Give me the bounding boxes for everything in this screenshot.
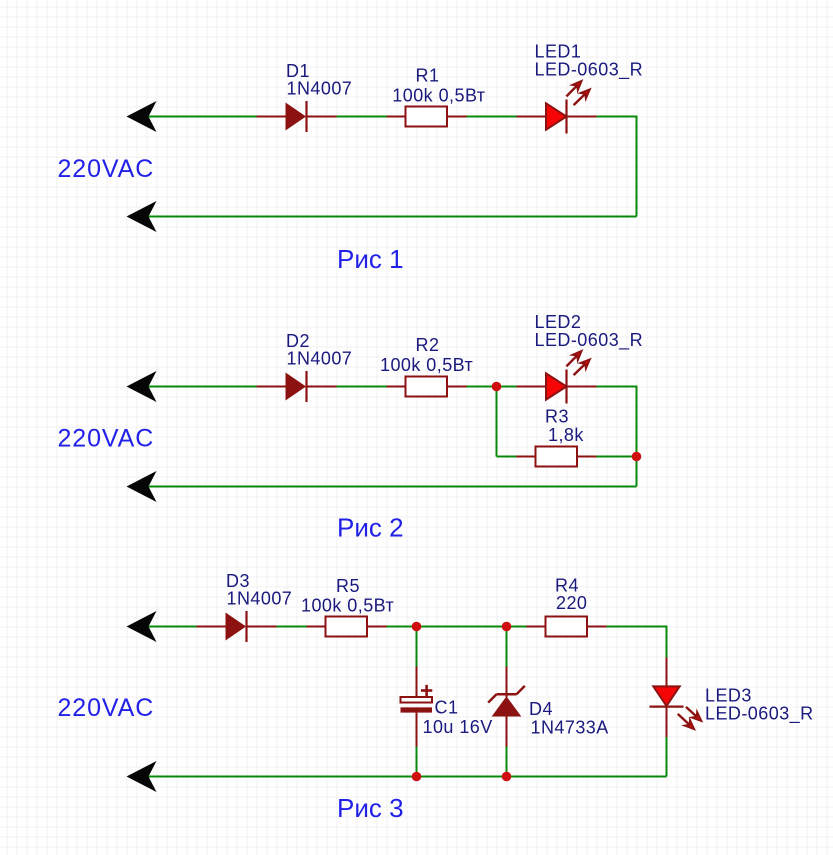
label R4 value 220: [556, 593, 587, 613]
label caption Рис 1: [337, 244, 404, 274]
wire segment branch to R3 (496.5,456.5)-(516.5,456.5): [497, 456, 517, 458]
wire segment arrow to D3 (128.5,626.5)-(196.5,626.5): [129, 626, 197, 628]
net 220VAC terminal arrow, circuit2 neutral: [127, 471, 157, 502]
wire segment R5 to R4 via junctions (386.5,626.5)-(526.5,626.5): [387, 626, 527, 628]
label LED2 designator: [535, 312, 582, 332]
svg-text:220: 220: [556, 593, 587, 613]
label D3 value 1N4007: [227, 589, 293, 609]
svg-text:220VAC: 220VAC: [58, 694, 155, 722]
label net 220VAC circuit3: [58, 694, 155, 722]
label R1 designator: [416, 66, 440, 86]
label D4 designator: [529, 699, 553, 719]
junction node at R2-LED2-R3 (496.5,386.5): [492, 382, 502, 392]
diode D1: [257, 101, 337, 132]
label R2 designator: [416, 335, 440, 355]
wire segment arrow to D2 (128.5,386.5)-(256.5,386.5): [129, 386, 257, 388]
svg-text:R5: R5: [336, 576, 360, 596]
label LED1 designator: [535, 42, 582, 62]
svg-text:LED1: LED1: [535, 42, 582, 62]
svg-text:R3: R3: [545, 407, 569, 427]
svg-text:100k 0,5Вт: 100k 0,5Вт: [380, 355, 473, 375]
label D1 designator: [286, 61, 310, 81]
wire segment D3 to R5 (276.5,626.5)-(306.5,626.5): [277, 626, 307, 628]
capacitor C1 polarized: [401, 667, 433, 747]
label R4 designator: [555, 576, 579, 596]
junction node bottom at C1 (416.5,776.5): [412, 772, 422, 782]
wire circuit1 right vertical (636.5,116.5)-(636.5,216.5): [636, 116, 638, 217]
svg-text:Рис 2: Рис 2: [337, 512, 404, 542]
label R3 value 1,8k: [548, 425, 584, 445]
label LED3 designator: [705, 686, 752, 706]
label R2 value 100k 0,5Вт: [380, 355, 473, 375]
label net 220VAC circuit2: [58, 424, 155, 452]
wire circuit2 bottom return (636.5,486.5)-(128.5,486.5): [129, 486, 637, 488]
svg-text:D4: D4: [529, 699, 553, 719]
label C1 designator: [435, 698, 459, 718]
wire segment corner to LED3 (666.5,626.5)-(666.5,657.5): [666, 626, 668, 658]
svg-text:220VAC: 220VAC: [58, 424, 155, 452]
label net 220VAC circuit1: [58, 155, 155, 183]
svg-text:C1: C1: [435, 698, 459, 718]
label D3 designator: [226, 571, 250, 591]
wire segment R1 to LED1 (466.5,116.5)-(516.5,116.5): [467, 116, 517, 118]
wire circuit3 bottom return (666.5,776.5)-(128.5,776.5): [129, 776, 667, 778]
wire circuit2 right vertical (636.5,386.5)-(636.5,486.5): [636, 386, 638, 487]
wire segment LED2 to corner (596.5,386.5)-(636.5,386.5): [597, 386, 637, 388]
label R5 designator: [336, 576, 360, 596]
resistor R1: [387, 107, 467, 127]
label caption Рис 2: [337, 512, 404, 542]
junction node bottom at D4 (506.5,776.5): [502, 772, 512, 782]
resistor R2: [387, 377, 467, 397]
svg-text:1N4007: 1N4007: [287, 349, 353, 369]
wire segment D2 to R2 (336.5,386.5)-(386.5,386.5): [337, 386, 387, 388]
label R3 designator: [545, 407, 569, 427]
wire segment D4 to bottom (506.5,746.5)-(506.5,776.5): [506, 747, 508, 777]
wire circuit2 branch vertical (496.5,386.5)-(496.5,456.5): [496, 387, 498, 457]
wire circuit1 bottom return (636.5,216.5)-(128.5,216.5): [129, 216, 637, 218]
zener diode D4: [488, 667, 525, 747]
svg-text:LED3: LED3: [705, 686, 752, 706]
net 220VAC terminal arrow, circuit1 neutral: [127, 201, 157, 232]
diode D2: [257, 371, 337, 402]
svg-text:R2: R2: [416, 335, 440, 355]
svg-text:1,8k: 1,8k: [548, 425, 584, 445]
resistor R3: [517, 447, 597, 467]
wire segment top to C1 (416.5,626.5)-(416.5,666.5): [416, 627, 418, 667]
svg-text:Рис 1: Рис 1: [337, 244, 404, 274]
label caption Рис 3: [337, 793, 404, 823]
svg-text:LED-0603_R: LED-0603_R: [705, 704, 814, 725]
svg-text:10u 16V: 10u 16V: [423, 717, 493, 737]
wire segment arrow to D1 (128.5,116.5)-(256.5,116.5): [129, 116, 257, 118]
wire segment LED3 to corner (666.5,737)-(666.5,776.5): [666, 737, 668, 777]
label LED1 footprint LED-0603_R: [535, 60, 644, 81]
svg-text:220VAC: 220VAC: [58, 155, 155, 183]
label R5 value 100k 0,5Вт: [301, 596, 394, 616]
svg-text:R1: R1: [416, 66, 440, 86]
diode D3: [197, 611, 277, 642]
net 220VAC terminal arrow, circuit3 neutral: [127, 761, 157, 792]
net 220VAC terminal arrow, circuit2 line: [127, 371, 157, 402]
wire segment R4 to corner (606.5,626.5)-(666.5,626.5): [607, 626, 667, 628]
svg-text:Рис 3: Рис 3: [337, 793, 404, 823]
svg-text:1N4007: 1N4007: [287, 79, 353, 99]
wire segment LED1 to corner (596.5,116.5)-(636.5,116.5): [597, 116, 637, 118]
svg-text:1N4733A: 1N4733A: [531, 718, 609, 738]
resistor R4: [527, 617, 607, 637]
net 220VAC terminal arrow, circuit3 line: [127, 611, 157, 642]
svg-text:1N4007: 1N4007: [227, 589, 293, 609]
svg-text:LED-0603_R: LED-0603_R: [535, 60, 644, 81]
net 220VAC terminal arrow, circuit1 line: [127, 101, 157, 132]
label C1 value 10u 16V: [423, 717, 493, 737]
LED LED1: [517, 81, 597, 134]
svg-text:100k 0,5Вт: 100k 0,5Вт: [392, 86, 485, 106]
wire segment R2 to LED2 (466.5,386.5)-(516.5,386.5): [467, 386, 517, 388]
svg-text:LED-0603_R: LED-0603_R: [535, 330, 644, 351]
LED LED3: [650, 658, 702, 738]
svg-text:100k 0,5Вт: 100k 0,5Вт: [301, 596, 394, 616]
label D2 value 1N4007: [287, 349, 353, 369]
label LED3 footprint LED-0603_R: [705, 704, 814, 725]
wire segment C1 to bottom (416.5,746.5)-(416.5,776.5): [416, 747, 418, 777]
wire segment R3 to junction (596.5,456.5)-(636.5,456.5): [597, 456, 637, 458]
label LED2 footprint LED-0603_R: [535, 330, 644, 351]
junction node at R3-LED2 cathode (636.5,456.5): [632, 452, 642, 462]
wire segment top to D4 (506.5,626.5)-(506.5,666.5): [506, 627, 508, 667]
LED LED2: [517, 351, 597, 404]
label R1 value 100k 0,5Вт: [392, 86, 485, 106]
wire segment D1 to R1 (336.5,116.5)-(386.5,116.5): [337, 116, 387, 118]
junction node top at D4 (506.5,626.5): [502, 622, 512, 632]
junction node top at C1 (416.5,626.5): [412, 622, 422, 632]
resistor R5: [307, 617, 387, 637]
label D2 designator: [286, 331, 310, 351]
label D1 value 1N4007: [287, 79, 353, 99]
label D4 value 1N4733A: [531, 718, 609, 738]
